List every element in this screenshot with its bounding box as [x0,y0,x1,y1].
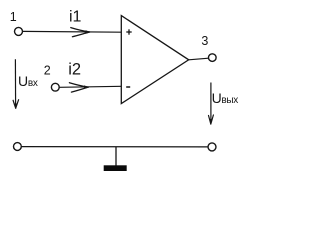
terminal 1 (input node circle) [15,27,23,35]
voltage arrow Uvyx (output voltage, pointing down) [209,83,214,125]
pin label 3 [201,34,208,48]
wire: terminal 2 to op-amp inverting input [59,86,121,87]
op-amp inverting input marker - [126,86,130,88]
svg-text:3: 3 [201,34,208,48]
wire: terminal 1 to op-amp non-inverting input [23,30,122,33]
current arrow i1 (arrowhead on wire) [71,28,91,37]
label Uvx (input voltage) [18,73,38,89]
current label i2 [68,60,81,78]
bottom common wire [21,146,208,148]
voltage arrow Uvx (input voltage, pointing down) [13,59,19,108]
op-amp non-inverting input marker + [126,29,131,34]
svg-text:i1: i1 [69,9,82,26]
pin label 2 [44,63,51,77]
bottom right terminal circle [208,143,216,151]
svg-text:i2: i2 [68,60,81,78]
ground stub wire [115,147,117,166]
svg-text:1: 1 [10,10,17,24]
op-amp U1 (triangle body) [121,16,188,104]
current label i1 [69,9,82,26]
pin label 1 [10,10,17,24]
current arrow i2 (arrowhead on wire) [69,83,89,92]
wire: op-amp output to terminal 3 [189,58,209,60]
label Uvyx (output voltage) [212,90,239,106]
terminal 3 (output node circle) [209,54,217,62]
terminal 2 (input node circle) [51,83,59,91]
svg-text:2: 2 [44,63,51,77]
ground (earth bar) [104,165,127,171]
bottom left terminal circle [14,143,22,151]
